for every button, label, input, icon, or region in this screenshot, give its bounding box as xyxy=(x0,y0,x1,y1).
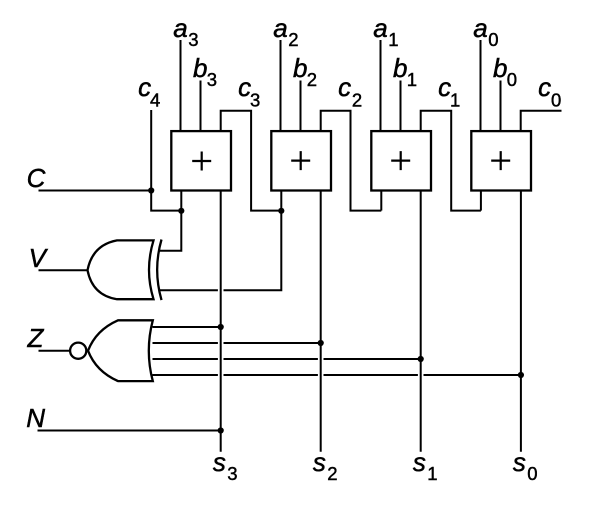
wire NOR input 3 from s1 xyxy=(153,358,421,360)
svg-text:3: 3 xyxy=(227,463,237,484)
svg-text:4: 4 xyxy=(150,89,160,110)
op NOR gate Z bubble xyxy=(70,343,86,359)
junction c3/V xyxy=(278,208,284,214)
svg-text:1: 1 xyxy=(427,463,437,484)
wire c2 from adder U1 carry-out xyxy=(380,190,382,210)
wire c0 stub xyxy=(521,111,562,132)
svg-text:s: s xyxy=(213,447,226,477)
junction s3/NOR xyxy=(218,324,224,330)
svg-text:2: 2 xyxy=(352,89,362,110)
wire c4 stub xyxy=(151,110,181,211)
svg-text:2: 2 xyxy=(307,69,317,90)
svg-text:a: a xyxy=(373,13,387,43)
adder U2 box xyxy=(271,131,331,190)
wire s1 output xyxy=(420,190,422,451)
wire NOR input 1 from s3 xyxy=(153,326,221,328)
adder U3 plus xyxy=(192,152,211,171)
svg-text:3: 3 xyxy=(250,89,260,110)
svg-text:b: b xyxy=(193,53,207,83)
wire b1 input xyxy=(400,81,402,132)
svg-text:c: c xyxy=(338,72,351,102)
svg-text:3: 3 xyxy=(207,69,217,90)
adder U2 plus xyxy=(291,151,310,170)
junction s0/NOR xyxy=(518,372,524,378)
svg-text:s: s xyxy=(313,447,326,477)
wire c3 from adder U2 carry-out down to XOR input xyxy=(159,190,282,290)
adder U0 box xyxy=(471,131,531,190)
junction C/c4 xyxy=(148,187,154,193)
svg-text:3: 3 xyxy=(188,29,198,50)
junction c4/V xyxy=(178,208,184,214)
wire s3 output xyxy=(220,190,222,451)
wire b2 input xyxy=(300,81,302,132)
wire s2 output xyxy=(320,190,322,451)
adder U1 plus xyxy=(391,151,410,170)
svg-text:1: 1 xyxy=(450,89,460,110)
svg-text:0: 0 xyxy=(507,69,517,90)
wire N flag xyxy=(38,430,221,432)
svg-text:b: b xyxy=(293,53,307,83)
wire s0 output xyxy=(520,190,522,451)
wire a1 input xyxy=(380,40,382,132)
adder U0 plus xyxy=(491,151,510,170)
op XOR gate V outer input arc xyxy=(157,240,161,301)
svg-text:a: a xyxy=(273,13,287,43)
wire c4 from adder U3 carry-out down to jog xyxy=(159,190,182,250)
svg-text:2: 2 xyxy=(327,463,337,484)
svg-text:b: b xyxy=(393,53,407,83)
junction s1/NOR xyxy=(418,356,424,362)
wire c1 from adder U0 carry-out xyxy=(480,190,482,210)
junction s2/NOR xyxy=(318,340,324,346)
junction s3/N xyxy=(218,427,224,433)
svg-text:C: C xyxy=(27,163,46,193)
svg-text:V: V xyxy=(29,243,49,273)
svg-text:s: s xyxy=(413,447,426,477)
wire V flag xyxy=(39,269,87,271)
svg-text:N: N xyxy=(26,403,45,433)
op NOR gate Z body xyxy=(88,320,153,381)
wire a2 input xyxy=(280,40,282,132)
wire NOR input 2 from s2 xyxy=(153,342,321,344)
svg-text:Z: Z xyxy=(27,323,45,353)
svg-text:c: c xyxy=(538,72,551,102)
adder U3 box xyxy=(171,131,231,190)
wire c2 jog from adder U2 carry-in xyxy=(321,111,382,211)
svg-text:1: 1 xyxy=(388,29,398,50)
adder U1 box xyxy=(371,131,431,190)
wire c1 jog from adder U1 carry-in xyxy=(421,111,481,211)
wire Z flag xyxy=(39,350,70,352)
wire a3 input xyxy=(180,40,182,132)
svg-text:a: a xyxy=(173,13,187,43)
svg-text:0: 0 xyxy=(527,463,537,484)
svg-text:1: 1 xyxy=(407,69,417,90)
svg-text:s: s xyxy=(513,447,526,477)
wire C flag xyxy=(39,190,152,192)
wire a0 input xyxy=(480,40,482,132)
svg-text:2: 2 xyxy=(288,29,298,50)
wire b3 input xyxy=(200,81,202,132)
svg-text:a: a xyxy=(473,13,487,43)
svg-text:0: 0 xyxy=(488,29,498,50)
wire c3 jog from adder U3 carry-in xyxy=(221,111,282,211)
wire NOR input 4 from s0 xyxy=(153,374,521,376)
svg-text:b: b xyxy=(493,53,507,83)
svg-text:0: 0 xyxy=(551,89,561,110)
op XOR gate V body xyxy=(88,240,154,299)
wire b0 input xyxy=(500,81,502,132)
